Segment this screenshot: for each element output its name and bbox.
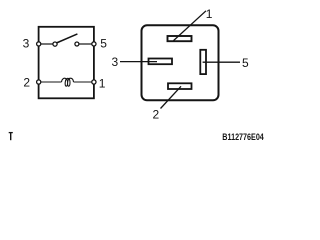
svg-text:3: 3 xyxy=(23,37,30,51)
svg-text:3: 3 xyxy=(112,55,119,69)
leader line terminal 5 xyxy=(203,61,240,63)
switch blade xyxy=(56,34,77,43)
slot terminal 1 (top) xyxy=(168,36,192,41)
svg-text:1: 1 xyxy=(99,77,106,91)
svg-text:1: 1 xyxy=(206,7,213,21)
svg-text:5: 5 xyxy=(100,37,107,51)
svg-text:B112776E04: B112776E04 xyxy=(222,132,264,142)
terminal circle pin1 xyxy=(92,80,96,84)
svg-text:2: 2 xyxy=(23,75,30,89)
wire: coil to pin1 xyxy=(74,81,93,83)
terminal circle pin3 xyxy=(37,42,41,46)
wire: pin2 to coil xyxy=(41,81,62,83)
wire: pin3 to switch pivot xyxy=(41,43,53,45)
caption T xyxy=(9,132,13,140)
relay coil/contact box xyxy=(39,27,94,99)
slot terminal 2 (bottom) xyxy=(168,83,192,89)
wire: switch contact to pin5 xyxy=(79,43,92,45)
terminal circle pin5 xyxy=(92,42,96,46)
svg-text:2: 2 xyxy=(153,107,160,121)
relay connector body xyxy=(142,25,219,100)
coil L xyxy=(62,78,74,86)
leader line terminal 2 xyxy=(161,86,182,108)
switch contact circle xyxy=(75,42,79,46)
leader line terminal 3 xyxy=(120,61,157,63)
switch pivot circle xyxy=(53,42,57,46)
leader line terminal 1 xyxy=(174,11,207,41)
slot terminal 5 (right, vertical) xyxy=(200,50,206,74)
terminal circle pin2 xyxy=(37,80,41,84)
svg-text:5: 5 xyxy=(242,56,249,70)
slot terminal 3 (left) xyxy=(149,59,173,65)
